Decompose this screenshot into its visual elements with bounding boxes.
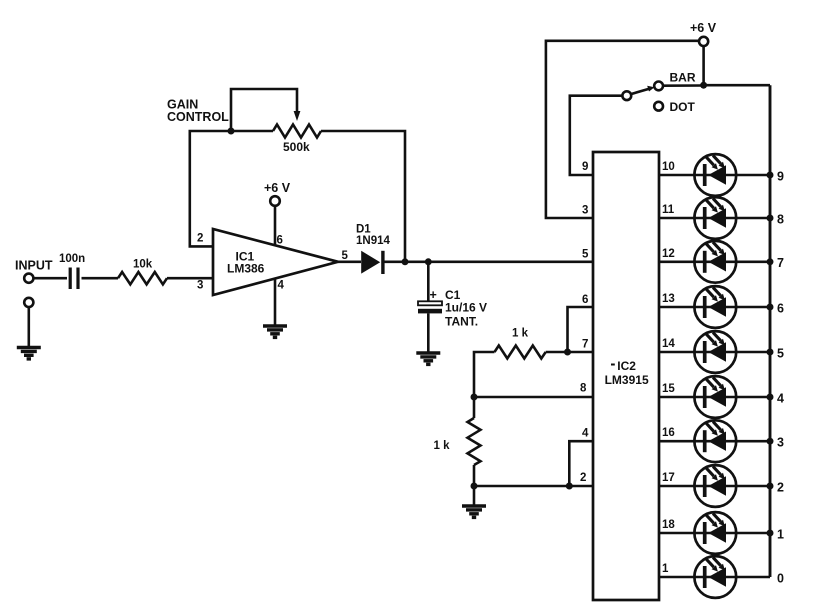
svg-text:+: + xyxy=(430,288,437,302)
svg-text:3: 3 xyxy=(777,436,784,450)
svg-text:2: 2 xyxy=(580,472,586,484)
resistor 10k xyxy=(118,259,167,285)
wire R10k to pin3 xyxy=(167,277,213,280)
+6V terminal (IC2) xyxy=(690,21,717,46)
LED row 8 xyxy=(694,197,736,239)
svg-text:2: 2 xyxy=(197,233,203,245)
svg-text:10: 10 xyxy=(662,161,675,173)
svg-text:4: 4 xyxy=(278,280,285,292)
GAIN CONTROL label xyxy=(167,98,229,125)
svg-text:5: 5 xyxy=(342,250,349,262)
wire C100n to R10k xyxy=(82,277,119,280)
wire pin4 stub + down xyxy=(569,441,593,486)
svg-text:4: 4 xyxy=(777,391,784,405)
svg-text:2: 2 xyxy=(777,480,784,494)
svg-text:BAR: BAR xyxy=(670,71,696,85)
wire 1k bottom to pin2 row xyxy=(473,465,476,486)
BAR contact xyxy=(654,71,696,91)
wire pin7 xyxy=(546,351,593,354)
LED row 6 xyxy=(694,286,736,328)
node feedback/output xyxy=(402,258,409,265)
svg-text:+6 V: +6 V xyxy=(264,181,291,195)
svg-text:11: 11 xyxy=(662,204,675,216)
LED row 1 xyxy=(694,512,736,554)
LED row 9 xyxy=(694,154,736,196)
LED row 0 xyxy=(694,556,736,598)
svg-text:1: 1 xyxy=(777,527,784,541)
wire 1k left corner down xyxy=(474,352,495,397)
wire input to C100n xyxy=(34,277,67,280)
svg-text:0: 0 xyxy=(777,571,784,585)
potentiometer 500k xyxy=(273,125,321,155)
op-amp IC1 LM386 xyxy=(213,229,338,295)
capacitor 100n xyxy=(59,253,85,289)
svg-text:INPUT: INPUT xyxy=(15,259,53,273)
svg-text:100n: 100n xyxy=(59,253,85,265)
pin 15 wire xyxy=(659,396,770,399)
svg-text:7: 7 xyxy=(777,256,784,270)
switch pole xyxy=(622,91,631,100)
wire pin6 stub + down to pin7 xyxy=(568,307,594,352)
svg-text:9: 9 xyxy=(777,169,784,183)
LED row 4 xyxy=(694,376,736,418)
svg-text:3: 3 xyxy=(582,205,588,217)
wire pin4 to ground xyxy=(274,279,277,326)
node rail row 6 xyxy=(767,304,774,311)
svg-text:1: 1 xyxy=(662,563,669,575)
node rail row 2 xyxy=(767,483,774,490)
svg-text:5: 5 xyxy=(777,346,784,360)
svg-text:18: 18 xyxy=(662,519,675,531)
node C1 tap xyxy=(425,258,432,265)
LED row 5 xyxy=(694,331,736,373)
node rail row 5 xyxy=(767,349,774,356)
switch arm xyxy=(631,86,655,94)
wire 500k right to output node xyxy=(321,131,405,262)
ground (divider) xyxy=(462,506,486,517)
svg-text:8: 8 xyxy=(580,383,587,395)
wire top rail to pin3 xyxy=(546,41,699,218)
wire node to C1 xyxy=(427,262,430,302)
node 1k/pin2 xyxy=(471,483,478,490)
svg-text:9: 9 xyxy=(582,161,588,173)
node junction (gain control wiper tap) xyxy=(228,128,235,135)
svg-text:D1: D1 xyxy=(356,224,371,236)
node rail row 9 xyxy=(767,172,774,179)
svg-text:6: 6 xyxy=(777,301,784,315)
node pin4/pin2 xyxy=(566,483,573,490)
node switch/+6V xyxy=(700,82,707,89)
node rail row 7 xyxy=(767,258,774,265)
svg-text:LM386: LM386 xyxy=(227,262,265,276)
ground (C1) xyxy=(416,353,440,364)
LED row 7 xyxy=(694,241,736,283)
svg-text:+6 V: +6 V xyxy=(690,21,717,35)
wire pin2 stub xyxy=(190,131,273,246)
node pin6/pin7 xyxy=(564,349,571,356)
resistor 1k (vertical) xyxy=(434,418,481,465)
svg-text:12: 12 xyxy=(662,248,675,260)
wire pin2 node to ground xyxy=(473,486,476,506)
svg-text:7: 7 xyxy=(582,339,588,351)
wire diode to IC2 pin5 xyxy=(383,260,593,263)
+6V terminal (op-amp) xyxy=(264,181,291,206)
svg-text:TANT.: TANT. xyxy=(445,315,478,329)
svg-text:14: 14 xyxy=(662,338,675,350)
svg-text:3: 3 xyxy=(197,280,203,292)
svg-text:6: 6 xyxy=(582,294,588,306)
svg-text:LM3915: LM3915 xyxy=(605,373,649,387)
svg-text:10k: 10k xyxy=(133,259,153,271)
pin 12 wire xyxy=(659,260,770,263)
svg-text:1 k: 1 k xyxy=(434,440,451,452)
pin 10 wire xyxy=(659,174,770,177)
ground (input) xyxy=(17,348,41,359)
LED anode rail xyxy=(769,85,772,577)
pin 1 wire xyxy=(659,576,770,579)
svg-text:4: 4 xyxy=(582,428,589,440)
pin 16 wire xyxy=(659,440,770,443)
DOT contact xyxy=(654,100,695,114)
wire C1 to ground xyxy=(427,313,430,353)
node rail row 4 xyxy=(767,394,774,401)
wire node to BAR contact xyxy=(663,84,703,87)
svg-text:17: 17 xyxy=(662,472,675,484)
wire to input ground xyxy=(27,307,30,347)
wire +6V down to switch node xyxy=(702,46,705,85)
svg-text:DOT: DOT xyxy=(670,100,696,114)
capacitor C1 1u/16V tantalum xyxy=(418,288,487,329)
resistor 1k (horizontal, pin7) xyxy=(495,328,546,359)
node rail row 3 xyxy=(767,438,774,445)
wire pin2 xyxy=(474,485,593,488)
LED row 2 xyxy=(694,465,736,507)
pin 11 wire xyxy=(659,217,770,220)
svg-text:CONTROL: CONTROL xyxy=(167,110,229,124)
svg-text:6: 6 xyxy=(277,235,283,247)
pin 13 wire xyxy=(659,306,770,309)
IC2 LM3915 body xyxy=(593,152,659,600)
svg-text:IC2: IC2 xyxy=(617,359,636,373)
pin 18 wire xyxy=(659,532,770,535)
wire pole to pin9 xyxy=(570,96,623,175)
node rail row 8 xyxy=(767,215,774,222)
wire pin8 xyxy=(474,396,593,399)
ground (op-amp pin4) xyxy=(263,326,287,337)
diode D1 1N914 xyxy=(356,224,390,275)
node rail row 1 xyxy=(767,530,774,537)
pin 17 wire xyxy=(659,485,770,488)
wiper arm of 500k xyxy=(231,89,300,131)
ground terminal below input xyxy=(24,298,33,307)
svg-text:8: 8 xyxy=(777,212,784,226)
svg-text:16: 16 xyxy=(662,427,675,439)
wire to 1k vertical xyxy=(473,397,476,418)
input terminal xyxy=(24,274,33,283)
svg-text:1u/16 V: 1u/16 V xyxy=(445,300,487,314)
svg-text:13: 13 xyxy=(662,293,675,305)
svg-text:1N914: 1N914 xyxy=(356,235,390,247)
svg-text:500k: 500k xyxy=(283,140,310,154)
node pin8/1k xyxy=(471,394,478,401)
svg-text:5: 5 xyxy=(582,249,589,261)
LED row 3 xyxy=(694,420,736,462)
wire pin5 to diode xyxy=(338,260,361,263)
svg-text:1 k: 1 k xyxy=(512,328,529,340)
svg-text:15: 15 xyxy=(662,383,675,395)
wire node to LED rail xyxy=(704,84,770,87)
pin 14 wire xyxy=(659,351,770,354)
wire pin6 supply xyxy=(274,206,277,246)
